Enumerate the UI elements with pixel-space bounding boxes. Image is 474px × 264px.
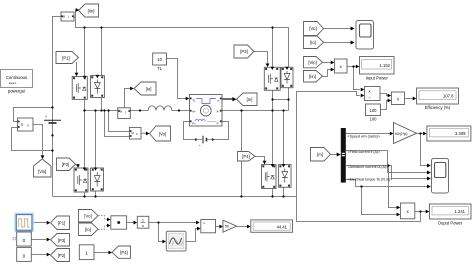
wire Q3 source column (272, 90, 274, 164)
wire Vin from-tag to product (323, 61, 335, 65)
svg-text:1.152: 1.152 (380, 63, 391, 68)
current sensor Iin (61, 12, 74, 21)
wire A- line (222, 110, 289, 112)
from [Iin] (304, 71, 323, 83)
from [P2] (57, 158, 76, 171)
wire field F- lead (213, 122, 229, 140)
svg-text:[Vin]: [Vin] (38, 169, 46, 174)
wire gate P3 (254, 52, 269, 68)
wire bottom DC- bus (53, 196, 297, 198)
wire torque branch to output multiply (362, 187, 401, 217)
from [Io] bottom (79, 223, 99, 236)
svg-text:v: v (27, 124, 29, 128)
svg-text:<Field current if (A)>: <Field current if (A)> (348, 150, 381, 154)
wire gain50 to display (237, 225, 251, 229)
goto [P1] bottom (51, 216, 70, 230)
svg-text:A+: A+ (192, 109, 196, 113)
wire output power feedback loop (297, 92, 421, 222)
from [P4] (238, 152, 256, 162)
wire armature left bus (85, 110, 118, 112)
svg-text:[P2]: [P2] (58, 253, 65, 258)
gain 60/(2*pi) (394, 123, 417, 144)
wire D2 bottom stub (95, 191, 97, 197)
svg-text:1.241: 1.241 (455, 209, 466, 214)
wire speed signal to gain (346, 132, 394, 136)
node field battery junctions (195, 138, 214, 140)
svg-text:s: s (142, 224, 144, 228)
DC machine (190, 95, 223, 127)
wire inductor to A+ (174, 110, 190, 112)
svg-text:[P3]: [P3] (240, 49, 247, 54)
scope motor (432, 159, 449, 194)
wire input power to display (347, 65, 359, 69)
from [Vo] top (304, 22, 324, 36)
diode D2 (91, 168, 104, 192)
wire rpm branch to scope (421, 134, 431, 168)
wire D1 column to bus and D2 (101, 98, 103, 111)
wire gate P1 (75, 62, 79, 76)
wire top rail drop to MOSFET Q3 (272, 28, 274, 68)
current sensor Io (118, 108, 131, 119)
MOSFET Q3 (264, 67, 280, 91)
constant 1 (79, 245, 94, 260)
wire efficiency to display (405, 97, 417, 101)
label field current signal (348, 150, 381, 154)
svg-text:TL: TL (192, 99, 196, 103)
svg-text:[m]: [m] (317, 152, 323, 157)
svg-text:10: 10 (157, 57, 162, 62)
diode D4 (279, 164, 291, 187)
display rpm (427, 126, 471, 141)
scope VI (356, 21, 374, 50)
stray port circle (13, 237, 16, 240)
MOSFET Q2 (74, 168, 88, 193)
svg-text:100: 100 (370, 117, 378, 122)
label torque signal (348, 177, 393, 181)
node battery rail junctions (51, 106, 53, 151)
display Input Power (360, 57, 395, 81)
svg-text:Ouput Power: Ouput Power (438, 221, 463, 226)
wire const0b to goto P2 (31, 253, 50, 257)
svg-text:TL: TL (157, 66, 163, 71)
svg-text:[Iin]: [Iin] (88, 9, 95, 14)
svg-text:powergui: powergui (8, 89, 25, 94)
voltage sensor Vo (129, 127, 141, 139)
svg-text:[P4]: [P4] (120, 250, 127, 255)
integrator 1/s (137, 216, 149, 228)
wire voltage sensor minus lead (12, 128, 53, 151)
constant TL 10 (153, 53, 167, 71)
svg-text:[Vin]: [Vin] (308, 60, 316, 65)
node output power branch (419, 210, 421, 212)
field DC source (196, 136, 213, 147)
divide block (365, 87, 381, 101)
wire Q2 bottom stub (84, 192, 86, 197)
svg-text:[Io]: [Io] (146, 87, 152, 92)
label speed signal (348, 135, 381, 139)
MOSFET Q1 (72, 76, 87, 100)
svg-text:[P4]: [P4] (242, 154, 249, 159)
wire transport delay to sum (186, 227, 201, 242)
from [Io] top (304, 36, 324, 49)
svg-text:[Vo]: [Vo] (84, 214, 91, 219)
wire D4 column (283, 111, 285, 165)
constant 0 b (17, 247, 32, 261)
diode D3 (281, 67, 293, 88)
svg-text:x: x (369, 88, 371, 93)
wire voltage sensor plus lead (14, 108, 53, 122)
wire Vo measurement to goto (141, 132, 150, 136)
goto [Io] armature (134, 82, 156, 95)
wire gain to rpm display (417, 132, 427, 136)
wire gate P2 (76, 164, 80, 167)
wire DC+ top rail (76, 18, 289, 68)
wire const0 to goto P3 (31, 238, 50, 242)
wire top rail drop to diode D1 (101, 28, 103, 76)
wire 100 to multiply (381, 99, 392, 110)
wire top rail drop to MOSFET Q1 (84, 28, 86, 77)
display average power (251, 220, 293, 232)
svg-text:[Vo]: [Vo] (159, 132, 166, 137)
wire armature current to scope (346, 166, 431, 181)
powergui (1, 70, 33, 94)
svg-text:Input Power: Input Power (366, 76, 389, 81)
svg-text:3.309: 3.309 (455, 131, 466, 136)
diode D1 (90, 75, 104, 98)
wire D4 bottom stub (283, 187, 285, 196)
svg-text:+: + (203, 221, 205, 225)
wire armature branch to output multiply (389, 166, 401, 210)
svg-text:0: 0 (23, 254, 26, 260)
wire input power to divide (354, 67, 365, 92)
sum block (201, 220, 216, 233)
label armature current signal (348, 165, 389, 169)
node input power branch (352, 65, 354, 67)
wire Io from-tag to scope (324, 41, 355, 45)
svg-text:<Armature current ia (A)>: <Armature current ia (A)> (348, 165, 389, 169)
wire Vin measurement to goto (33, 125, 44, 160)
wire Q1 source column to bus and Q2 (84, 99, 86, 168)
from [Vin] (304, 57, 323, 68)
svg-text:<Speed wm (rad/s)>: <Speed wm (rad/s)> (348, 135, 381, 139)
wire left battery rail (53, 17, 62, 197)
gain 50 (223, 220, 237, 232)
display Efficiency (417, 88, 459, 110)
wire bus drop to diode D2 (95, 111, 97, 170)
svg-text:[P3]: [P3] (58, 238, 65, 243)
goto [Vo] (150, 126, 171, 141)
node armature branch (387, 164, 389, 166)
constant 100 (366, 104, 381, 122)
node A- junctions (240, 98, 289, 111)
svg-text:ideal s...: ideal s... (9, 82, 19, 85)
svg-text:107.8: 107.8 (443, 94, 454, 99)
wire divide to multiply (380, 94, 391, 98)
product output power (400, 203, 414, 219)
svg-text:[m]: [m] (247, 97, 253, 102)
svg-text:Efficiency (%): Efficiency (%) (425, 105, 451, 110)
wire output multiply to display (415, 210, 430, 214)
svg-text:A-: A- (217, 109, 220, 113)
svg-text:[Vo]: [Vo] (309, 26, 316, 31)
svg-text:[P2]: [P2] (62, 162, 69, 167)
bus selector (341, 128, 346, 183)
goto [m] (237, 93, 258, 106)
node rpm branch (419, 132, 421, 134)
goto [Vin] (34, 159, 52, 177)
product average power (111, 216, 127, 229)
from [P3] (234, 45, 254, 58)
wire Q4 bottom stub (272, 189, 274, 197)
goto [P2] bottom (51, 249, 70, 262)
svg-text:[P1]: [P1] (58, 221, 65, 226)
node top rail junctions (83, 26, 273, 28)
wire VM2 input 2 (105, 111, 130, 137)
wire const1 to goto P4 (94, 251, 112, 255)
wire D3 bottom column (288, 88, 290, 111)
svg-text:+: + (45, 115, 47, 119)
wire sum to gain50 (216, 225, 224, 229)
constant 0 a (17, 232, 32, 246)
svg-text:60/(2*pi): 60/(2*pi) (395, 132, 407, 136)
svg-text:Continuous: Continuous (6, 75, 27, 80)
wire product to integrator (127, 221, 138, 225)
goto [P4] bottom (112, 246, 131, 258)
wire Io from-tag to product dashed (98, 224, 111, 230)
wire gate P4 (255, 157, 266, 165)
wire field current to scope (346, 151, 431, 175)
svg-text:[Iin]: [Iin] (309, 74, 316, 79)
svg-text:[Io]: [Io] (310, 40, 316, 45)
goto [P3] bottom (51, 234, 70, 247)
MOSFET Q4 (262, 164, 277, 188)
wire A- drop to bottom bus (241, 111, 243, 197)
svg-text:50: 50 (225, 225, 229, 229)
node torque branch (360, 185, 362, 187)
wire branch to transport delay (159, 223, 167, 244)
voltage sensor Vin (18, 118, 34, 131)
transport delay (166, 231, 186, 251)
wire torque signal to scope (346, 180, 431, 189)
display Output Power (430, 204, 472, 226)
goto [Iin] (79, 4, 99, 17)
wire pulse to goto P1 (32, 221, 50, 225)
wire current sensor to inductor (130, 110, 146, 112)
svg-text:[P1]: [P1] (62, 56, 69, 61)
wire right mid bus (273, 99, 289, 101)
product efficiency (391, 92, 404, 105)
product input power (335, 59, 347, 73)
node integrator branch (157, 221, 159, 223)
wire current sensor output stub (73, 17, 75, 19)
wire Vo from-tag to product dashed (98, 216, 111, 222)
svg-text:1: 1 (142, 219, 144, 223)
wire VM2 input 1 (109, 111, 130, 132)
svg-text:1: 1 (85, 251, 88, 257)
pulse generator (15, 214, 33, 233)
wire field F+ lead (184, 122, 197, 140)
battery DC source (44, 115, 61, 123)
from [P1] (56, 52, 79, 64)
wire TL constant to machine (167, 59, 190, 101)
svg-text:100: 100 (370, 108, 378, 113)
node bottom bus junctions (83, 195, 284, 197)
svg-text:[Io]: [Io] (85, 227, 91, 232)
svg-text:+: + (199, 143, 201, 147)
wire integrator to sum (149, 221, 200, 225)
from [m] (311, 148, 331, 162)
svg-text:44.41: 44.41 (277, 224, 288, 229)
svg-text:<Electrical torque Te (N.m)>: <Electrical torque Te (N.m)> (348, 177, 393, 181)
inductor La (146, 106, 174, 111)
svg-text:F+: F+ (192, 121, 196, 125)
svg-text:F-: F- (217, 121, 220, 125)
wire machine m to goto (222, 97, 237, 101)
wire m from-tag to bus selector (331, 153, 341, 157)
wire Iin sensor to goto (76, 8, 80, 17)
from [Vo] bottom (79, 210, 99, 223)
wire Io sensor to goto (125, 87, 134, 108)
node armature bus junctions (83, 109, 180, 111)
svg-text:0: 0 (23, 238, 26, 244)
wire Vo from-tag to scope (324, 27, 355, 31)
wire Iin from-tag to product (323, 68, 335, 77)
